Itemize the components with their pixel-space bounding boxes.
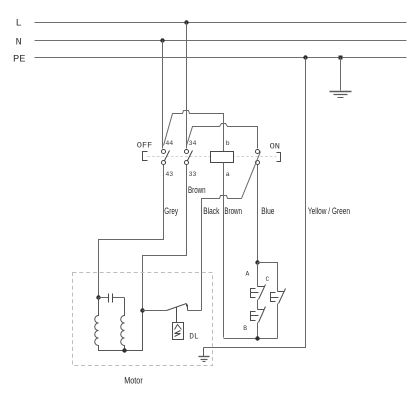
- winding L1 (main, left): [95, 298, 143, 351]
- wire ON blade diagonal to black node: [242, 152, 261, 199]
- wire coil a down (brown, hump crossing black wire): [223, 163, 225, 338]
- svg-text:C: C: [266, 276, 270, 283]
- svg-text:Blue: Blue: [261, 206, 274, 216]
- svg-text:Grey: Grey: [164, 206, 178, 216]
- svg-text:34: 34: [189, 140, 197, 147]
- wire grey: 43 down, left, down into motor: [99, 165, 164, 298]
- thermal overload DL: [173, 308, 184, 340]
- svg-text:N: N: [16, 36, 22, 48]
- ground (top right earth symbol): [330, 92, 352, 98]
- start relay: node blue/branches: [255, 260, 259, 264]
- contact ON: [255, 149, 259, 164]
- node L rail: [35, 22, 407, 24]
- junction dot on N: [160, 38, 164, 42]
- svg-text:OFF: OFF: [137, 141, 152, 151]
- coil K1 rectangle: [211, 152, 234, 163]
- wire relay left branch upper: [257, 263, 259, 287]
- contact A: [251, 285, 266, 300]
- node: grey/capacitor/main winding junction: [96, 295, 100, 299]
- svg-text:L: L: [16, 18, 22, 30]
- svg-text:DL: DL: [189, 334, 199, 342]
- wire contact C down: [277, 304, 279, 339]
- svg-text:33: 33: [189, 171, 197, 178]
- wire black: ON bottom node to motor switch (hump over brown): [202, 196, 242, 311]
- centrifugal switch S1: [143, 304, 202, 311]
- svg-text:Yellow / Green: Yellow / Green: [308, 206, 350, 216]
- node relay bottom junction: [255, 336, 259, 340]
- svg-text:a: a: [226, 171, 230, 179]
- node: brown wire / windings return junction: [140, 308, 144, 312]
- wire relay top branch: [258, 263, 278, 292]
- wire relay bottom rail to brown: [224, 338, 278, 340]
- motor dashed enclosure: [73, 273, 213, 366]
- wire PE to earth: [340, 58, 342, 91]
- ON bracket: [277, 153, 281, 162]
- wire L drop to contact 34: [186, 23, 188, 149]
- svg-text:Brown: Brown: [224, 206, 242, 216]
- svg-text:ON: ON: [270, 141, 280, 151]
- wire between contact A and B: [257, 300, 259, 310]
- wire node34-top to ON contact (with hump over coil feed): [187, 124, 258, 149]
- wire yellow/green: PE down to motor earth: [204, 58, 306, 348]
- wire N drop to contact 44: [162, 41, 164, 149]
- svg-text:Black: Black: [203, 206, 220, 216]
- svg-text:Brown: Brown: [188, 185, 206, 195]
- mechanical link dashed line: [148, 156, 277, 158]
- junction dot on PE (yellow/green tap): [303, 55, 307, 59]
- svg-text:PE: PE: [13, 53, 26, 65]
- svg-text:44: 44: [165, 140, 173, 147]
- OFF bracket: [143, 152, 148, 161]
- svg-text:A: A: [246, 271, 250, 278]
- wire blue: ON bottom down to relay node: [257, 165, 259, 263]
- junction dot on L: [184, 20, 188, 24]
- ground (motor earth symbol): [199, 348, 210, 362]
- node N rail: [35, 40, 407, 42]
- contact C (right branch): [271, 289, 286, 304]
- wire node44-top to coil b (with hump over L wire): [164, 111, 224, 152]
- svg-text:43: 43: [165, 171, 173, 178]
- node: winding bottoms junction: [122, 348, 126, 352]
- svg-text:B: B: [243, 325, 247, 332]
- svg-text:Motor: Motor: [124, 376, 143, 386]
- capacitor C1: [99, 294, 125, 303]
- wire contact B down to bottom node: [257, 323, 259, 339]
- svg-text:b: b: [226, 140, 230, 148]
- node PE rail: [35, 57, 407, 59]
- contact B: [251, 307, 266, 323]
- contact 34/33 (OFF pole 2): [184, 149, 192, 164]
- contact 44/43 (OFF pole 1): [161, 149, 169, 164]
- junction dot on PE (earth tap): [339, 56, 343, 60]
- wire brown(33): down, left, down to motor switch node: [143, 165, 187, 311]
- winding L2 (aux, right): [121, 298, 125, 351]
